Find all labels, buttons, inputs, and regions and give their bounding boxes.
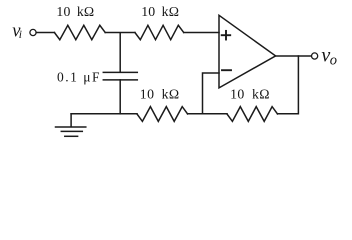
wire op-amp output to vo terminal xyxy=(276,55,312,57)
svg-text:10 kΩ: 10 kΩ xyxy=(140,86,180,101)
svg-text:vi: vi xyxy=(12,22,22,42)
ground stem xyxy=(70,114,72,127)
wire R2 to op-amp noninverting input xyxy=(184,32,219,34)
resistor R4 xyxy=(227,107,278,122)
node vo terminal xyxy=(312,53,318,59)
ground bar 3 xyxy=(65,135,78,137)
resistor R2 xyxy=(135,25,184,39)
op-amp minus sign xyxy=(222,69,231,71)
svg-text:vo: vo xyxy=(321,44,337,68)
wire R3 to R4 (bottom rail middle, node B) xyxy=(188,113,227,115)
ground bar 2 xyxy=(61,130,82,132)
resistor R1 xyxy=(54,25,105,39)
wire ground to R3 (bottom rail left) xyxy=(71,113,137,115)
wire node B up to op-amp inverting input xyxy=(203,73,220,114)
wire R4 up to output node xyxy=(278,56,299,114)
op-amp U1 xyxy=(219,15,276,88)
resistor R3 xyxy=(137,107,188,122)
op-amp plus sign xyxy=(222,31,231,40)
svg-text:10 kΩ: 10 kΩ xyxy=(56,4,94,19)
svg-text:10 kΩ: 10 kΩ xyxy=(141,4,179,19)
node A wire down to capacitor xyxy=(119,33,121,72)
wire vi to R1 xyxy=(36,32,54,34)
capacitor C1 bottom plate xyxy=(103,79,137,81)
capacitor C1 top plate xyxy=(103,71,137,73)
wire capacitor to bottom rail xyxy=(119,80,121,114)
ground bar 1 xyxy=(56,126,86,128)
svg-text:0.1 μF: 0.1 μF xyxy=(57,70,101,85)
wire R1 to node A xyxy=(105,32,135,34)
node vi terminal xyxy=(30,29,36,35)
svg-text:10 kΩ: 10 kΩ xyxy=(230,87,270,102)
